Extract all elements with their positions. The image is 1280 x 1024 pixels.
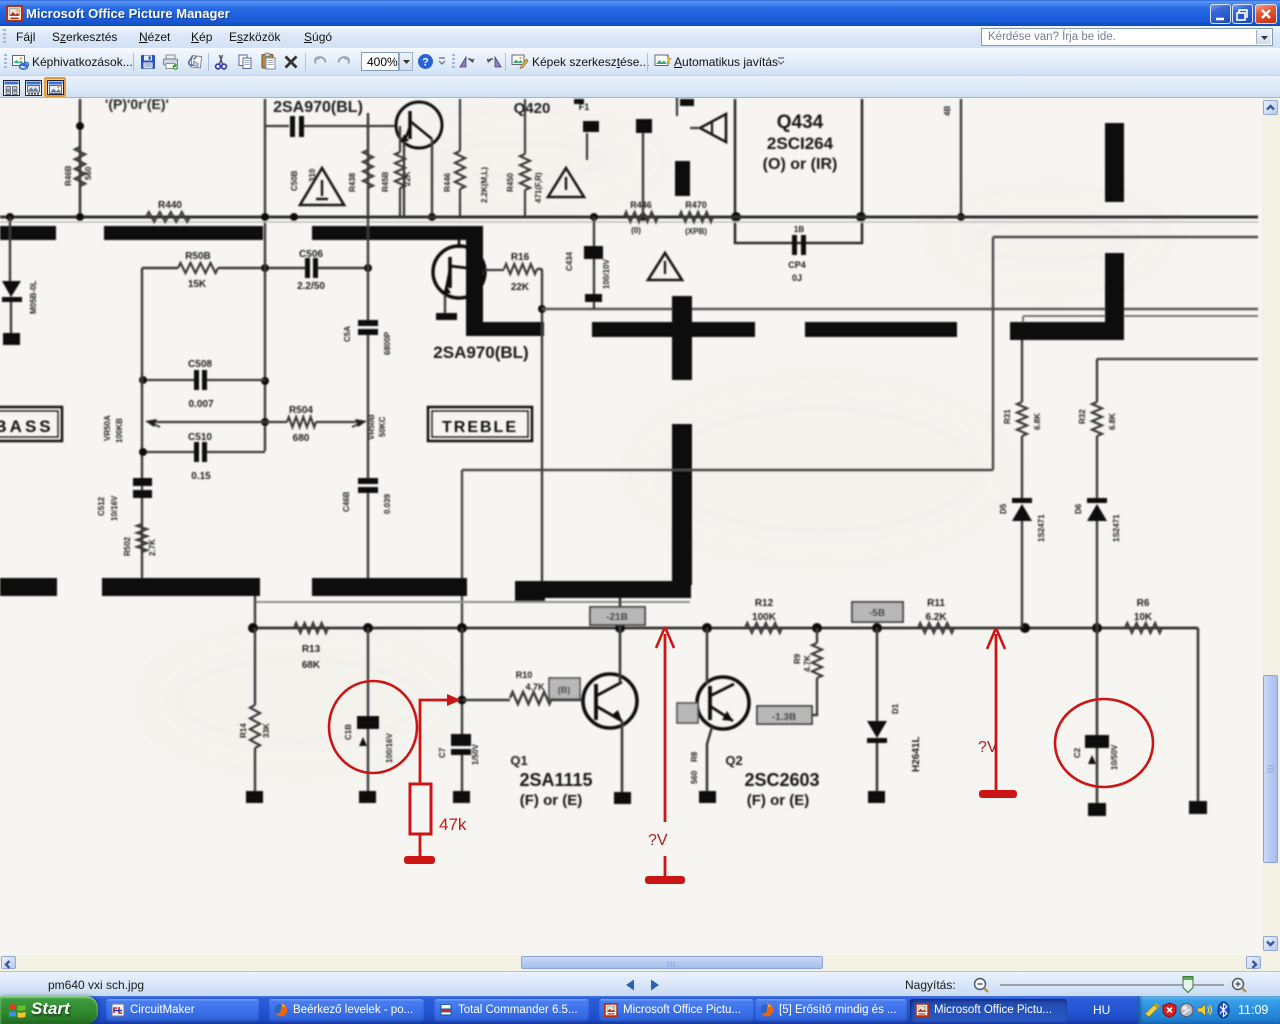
svg-text:6800P: 6800P [383, 331, 392, 355]
label Q434 [777, 112, 824, 133]
svg-text:2SCI264: 2SCI264 [767, 134, 834, 153]
transistor 2SA970(BL) second [433, 238, 485, 298]
wire right end drop [1197, 628, 1200, 801]
svg-text:2SA970(BL): 2SA970(BL) [273, 99, 363, 116]
annotation red ground at node B [979, 770, 1017, 798]
capacitor C46B 0.039 [342, 478, 392, 514]
wire 2SA970 emitter to terminal [436, 295, 457, 320]
svg-text:R6: R6 [1137, 598, 1150, 609]
svg-text:0J: 0J [792, 273, 802, 283]
capacitor CP4 0.1 [788, 225, 806, 283]
label box BASS [0, 407, 62, 441]
heavy trace bar B2 [805, 322, 957, 337]
node Q1 base [458, 696, 467, 705]
svg-text:2.7K: 2.7K [148, 539, 157, 556]
svg-text:C7: C7 [438, 747, 447, 758]
svg-text:(O) or (IR): (O) or (IR) [763, 156, 838, 173]
heavy trace bar B1 [592, 322, 755, 337]
heavy trace vertical cross lower [672, 424, 692, 585]
svg-text:15K: 15K [188, 279, 207, 290]
svg-text:22K: 22K [403, 171, 412, 186]
svg-text:C512: C512 [97, 496, 106, 516]
terminal D1 [868, 791, 885, 803]
svg-text:R438: R438 [348, 172, 357, 192]
voltage label box Q2 base [677, 703, 698, 723]
wire main horizontal bus [0, 217, 1258, 222]
junction node R50B wire at x368 [364, 264, 372, 272]
voltage label box -21B [590, 607, 645, 625]
heavy trace bar C1 [0, 578, 57, 596]
svg-text:1S2471: 1S2471 [1037, 514, 1046, 542]
svg-text:0.039: 0.039 [383, 493, 392, 514]
svg-text:TREBLE: TREBLE [442, 419, 518, 436]
wire feedback loop vertical left [461, 470, 463, 700]
svg-text:10K: 10K [1134, 612, 1153, 623]
wire R50B branch [142, 267, 368, 269]
wire feedback top right [993, 236, 1258, 238]
resistor R470 on bus [679, 200, 713, 236]
label R440 [146, 200, 190, 222]
svg-text:2.2/50: 2.2/50 [297, 281, 325, 292]
wire bottom bus [253, 627, 1198, 630]
svg-text:D1: D1 [891, 703, 900, 714]
svg-text:R502: R502 [123, 536, 132, 556]
svg-text:?V: ?V [648, 832, 668, 849]
grey echo under bar row [255, 601, 690, 603]
svg-text:-1.3B: -1.3B [772, 712, 796, 723]
heavy trace vertical right top [1105, 123, 1124, 202]
voltage label box -1.3B [757, 706, 812, 724]
svg-text:Q1: Q1 [510, 753, 527, 768]
svg-text:CP4: CP4 [788, 260, 806, 270]
svg-text:C2: C2 [1073, 747, 1082, 758]
label Q2 [725, 753, 742, 768]
transistor Q1 2SA1115 [583, 674, 637, 728]
annotation red ground below 47k [404, 834, 435, 864]
resistor R31 6.8K [1003, 340, 1042, 498]
capacitor C506 2.2/50 [297, 249, 325, 292]
wire R16 corner down to grey bus [537, 269, 546, 581]
svg-text:R9: R9 [793, 653, 802, 664]
svg-text:C50B: C50B [290, 170, 299, 191]
annotation red resistor 47k [410, 784, 431, 834]
resistor R450 [506, 99, 530, 217]
svg-text:R446: R446 [443, 172, 452, 192]
label (P) or (E) partially cut [105, 96, 169, 112]
resistor R6 10K [1125, 598, 1162, 633]
svg-text:C46B: C46B [342, 491, 351, 512]
terminal Q2 emitter [699, 791, 716, 803]
heavy trace bar B3 [1010, 322, 1122, 340]
label 2SA970(BL) top [273, 99, 363, 116]
svg-text:R50B: R50B [185, 251, 211, 262]
label box TREBLE [428, 407, 532, 441]
resistor R9 4.7K [793, 628, 822, 715]
black tick bar top right [675, 161, 690, 196]
wire Q420 emitter leg [403, 142, 405, 217]
svg-text:Q434: Q434 [777, 112, 824, 133]
label 2SC2603 [744, 770, 819, 790]
wire Q2 collector [706, 628, 709, 684]
wire vertical x961 [943, 99, 965, 221]
heavy trace bar C4 [515, 581, 691, 602]
voltage label box -5B [852, 602, 903, 622]
svg-text:-5B: -5B [869, 608, 885, 619]
svg-text:100/10V: 100/10V [602, 259, 611, 289]
terminal C1B [359, 791, 376, 803]
svg-text:D6: D6 [1074, 503, 1083, 514]
svg-text:100/16V: 100/16V [385, 733, 394, 763]
heavy trace vertical right mid [1105, 253, 1124, 340]
wire grey bus lower pair [1023, 316, 1258, 323]
svg-text:R32: R32 [1078, 409, 1087, 424]
svg-text:R504: R504 [289, 405, 313, 416]
diode M05B left [2, 217, 38, 333]
svg-text:?: ? [422, 57, 429, 69]
svg-text:100K: 100K [752, 612, 777, 623]
resistor R504 680 [287, 405, 316, 444]
svg-text:0.15: 0.15 [191, 471, 211, 482]
wire Q1 base row [462, 699, 584, 701]
svg-text:6.2K: 6.2K [925, 612, 947, 623]
resistor R438 [348, 113, 373, 217]
terminal R14 [246, 791, 263, 803]
wire feedback loop vertical right [992, 237, 994, 470]
capacitor C512 10/16V [97, 478, 152, 521]
resistor R13 68K [294, 623, 328, 671]
wire vertical x368 [367, 113, 369, 578]
label Q1 [510, 753, 527, 768]
svg-text:(0): (0) [631, 226, 641, 235]
wire right branch E [1097, 358, 1258, 360]
svg-text:4B: 4B [943, 106, 952, 116]
junction nodes bottom bus [248, 623, 1102, 633]
svg-text:-21B: -21B [606, 612, 628, 623]
annotation red arrow at node B [987, 628, 1005, 770]
diode D1 H2641L [867, 628, 922, 791]
capacitor C7 1/50V [438, 628, 480, 791]
wire vertical x265 lower [261, 240, 269, 451]
wire Q1 collector from heavy bar [619, 598, 622, 683]
svg-text:R470: R470 [685, 200, 707, 210]
svg-text:C434: C434 [565, 251, 574, 271]
svg-text:(B): (B) [558, 685, 571, 695]
terminal C7 [453, 791, 470, 803]
svg-text:C510: C510 [188, 432, 212, 443]
svg-text:'(P)'0r'(E)': '(P)'0r'(E)' [105, 98, 169, 112]
svg-text:4.7K: 4.7K [525, 682, 545, 692]
annotation red ground at node A [645, 856, 685, 884]
svg-text:4.7K: 4.7K [803, 655, 812, 672]
svg-text:33K: 33K [262, 723, 271, 738]
capacitor C50B [265, 116, 396, 191]
diode D5 1S2471 [999, 498, 1046, 628]
label 2SCI264 [767, 134, 834, 153]
value 471(F,R) [534, 172, 543, 203]
warning triangle right [648, 253, 682, 280]
svg-text:(F) or (E): (F) or (E) [747, 792, 809, 809]
heavy trace bar A1 [0, 226, 56, 240]
svg-text:1/50V: 1/50V [471, 743, 480, 765]
svg-text:10/16V: 10/16V [110, 495, 119, 521]
svg-text:R12: R12 [755, 598, 774, 609]
svg-text:C5A: C5A [343, 326, 352, 342]
svg-text:R45B: R45B [381, 171, 390, 192]
heavy tick top edge F1 [574, 99, 584, 104]
label (F) or (E) under Q2 [747, 792, 809, 809]
svg-text:2SC2603: 2SC2603 [744, 770, 819, 790]
resistor R32 6.8K [1078, 359, 1117, 498]
wire left input vertical [79, 99, 82, 217]
svg-text:6.8K: 6.8K [1033, 413, 1042, 430]
node on left vertical wire [76, 122, 84, 130]
svg-text:C508: C508 [188, 359, 212, 370]
svg-text:C1B: C1B [344, 724, 353, 740]
transistor Q2 2SC2603 [697, 677, 749, 729]
wire x368 stub above [367, 578, 369, 596]
svg-text:?V: ?V [978, 739, 998, 756]
svg-text:R11: R11 [927, 598, 945, 609]
svg-text:D5: D5 [999, 503, 1008, 514]
wire Q1 emitter [621, 721, 624, 792]
svg-text:BASS: BASS [0, 417, 54, 436]
resistor R45B 22K [381, 126, 412, 217]
terminal node top mid [636, 119, 652, 221]
heavy trace bar under 2SA970 [466, 322, 544, 336]
resistor R10 4.7K [510, 670, 552, 704]
value 2.2K(M,L) [480, 167, 489, 203]
potentiometer VR50B 50KC wiper [352, 414, 387, 440]
fuse F1 terminal [579, 102, 599, 160]
wire x255 drop [254, 596, 256, 628]
svg-text:R446: R446 [630, 200, 652, 210]
svg-text:0.007: 0.007 [188, 399, 213, 410]
terminal of diode branch [3, 333, 20, 345]
svg-text:R8: R8 [690, 751, 699, 762]
svg-text:1S2471: 1S2471 [1112, 514, 1121, 542]
svg-text:M05B-0L: M05B-0L [29, 281, 38, 314]
svg-text:H2641L: H2641L [911, 736, 922, 772]
svg-text:Q2: Q2 [725, 753, 742, 768]
svg-text:Q420: Q420 [514, 100, 551, 117]
svg-text:680: 680 [293, 433, 310, 444]
svg-text:10/50V: 10/50V [1110, 744, 1119, 770]
resistor R11 6.2K [918, 598, 954, 633]
heavy trace bar C2 [102, 578, 260, 596]
triangle marker left-pointing [677, 96, 726, 142]
svg-text:471(F,R): 471(F,R) [534, 172, 543, 203]
terminal C2 [1088, 803, 1106, 816]
wire pot wiper row [156, 421, 356, 423]
annotation label ?V at node A [648, 832, 668, 849]
svg-text:50KC: 50KC [378, 416, 387, 437]
wire Q420 collector leg [428, 139, 436, 221]
warning triangle mid-top [548, 168, 584, 197]
junction nodes on bus [6, 213, 598, 221]
annotation red circle around C1B [329, 681, 417, 773]
warning triangle near C50B [300, 168, 344, 205]
svg-text:R440: R440 [158, 200, 182, 211]
junction nodes at Q434 box sides [731, 212, 866, 222]
annotation red wire with arrow to Q1 base node [420, 694, 461, 784]
diode D6 1S2471 [1074, 498, 1121, 628]
resistor R12 100K [745, 598, 782, 633]
svg-text:R46B: R46B [64, 165, 73, 186]
Q434 block outline [735, 99, 862, 243]
heavy tick top edge [680, 99, 694, 106]
wire grey bus mid [542, 308, 1258, 311]
svg-text:R31: R31 [1003, 409, 1012, 424]
svg-text:R16: R16 [511, 252, 530, 263]
svg-text:R450: R450 [506, 172, 515, 192]
capacitor C5A 6800P [343, 320, 392, 355]
label 2SA1115 [519, 770, 592, 790]
transistor Q420 [396, 102, 442, 148]
svg-text:2SA1115: 2SA1115 [519, 770, 592, 790]
svg-text:2.2K(M,L): 2.2K(M,L) [480, 167, 489, 203]
annotation red circle around C2 [1055, 699, 1153, 787]
voltage label box at R10 [549, 678, 580, 699]
svg-text:22K: 22K [511, 282, 530, 293]
capacitor C510 0.15 [139, 432, 265, 482]
capacitor C1B 100/16V [344, 628, 394, 791]
wire feedback loop horizontal [462, 469, 993, 471]
svg-text:(F) or (E): (F) or (E) [520, 792, 582, 809]
svg-text:R14: R14 [239, 723, 248, 738]
svg-text:2SA970(BL): 2SA970(BL) [433, 343, 528, 362]
wire Q2 emitter with R8 [690, 727, 712, 791]
svg-text:47k: 47k [439, 815, 467, 834]
terminal right end [1189, 801, 1207, 814]
junction node R50B wire at x265 [261, 264, 269, 272]
label 2SA970(BL) mid [433, 343, 528, 362]
svg-text:560: 560 [84, 166, 93, 180]
svg-text:100KB: 100KB [115, 418, 124, 443]
resistor R502 2.7K [123, 524, 157, 556]
svg-text:C506: C506 [299, 249, 323, 260]
heavy trace bar A3 [312, 226, 483, 240]
resistor R50B 15K [178, 251, 218, 290]
annotation label ?V at node B [978, 739, 998, 756]
svg-text:VR50A: VR50A [103, 415, 112, 441]
svg-text:68K: 68K [302, 660, 321, 671]
resistor R446 vertical [443, 99, 465, 217]
heavy trace bar A2 [104, 226, 263, 240]
svg-text:6.8K: 6.8K [1108, 413, 1117, 430]
capacitor C2 10/50V [1073, 628, 1119, 803]
heavy trace bar C3 [312, 578, 467, 596]
resistor R446 on bus [624, 200, 658, 235]
heavy trace vertical through 2SA970 [466, 226, 483, 336]
potentiometer VR50A 100KB [103, 268, 160, 578]
resistor R16 22K [485, 252, 537, 293]
capacitor C434 100/10V [565, 217, 611, 309]
capacitor C508 0.007 [139, 359, 265, 410]
annotation label 47k [439, 815, 467, 834]
heavy trace vertical cross upper [672, 296, 692, 380]
svg-text:R13: R13 [302, 644, 321, 655]
label (F) or (E) under Q1 [520, 792, 582, 809]
label Q420 [514, 100, 551, 117]
resistor R46B [64, 147, 93, 186]
annotation red arrow at node A [656, 627, 674, 822]
wire vertical x265 upper [264, 99, 266, 240]
svg-text:560: 560 [690, 770, 699, 784]
terminal Q1 emitter [614, 792, 631, 804]
svg-text:1B: 1B [794, 225, 804, 234]
svg-text:R10: R10 [516, 670, 533, 680]
resistor R14 33K [239, 628, 271, 791]
svg-text:(XPB): (XPB) [685, 227, 707, 236]
label (O) or (R) [763, 156, 838, 173]
